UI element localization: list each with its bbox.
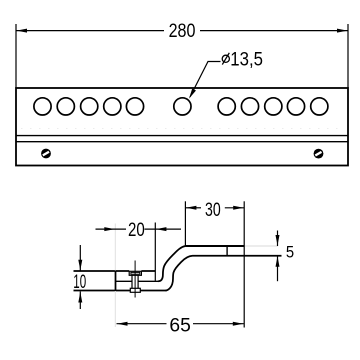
dim 20 arrow left (outside, pointing right) bbox=[104, 227, 115, 231]
leader arrowhead bbox=[189, 89, 196, 99]
dim 30 line bbox=[185, 207, 201, 209]
hole 9 bbox=[265, 98, 282, 115]
svg-text:5: 5 bbox=[286, 244, 295, 262]
screw left bbox=[41, 149, 51, 159]
screw right bbox=[314, 149, 324, 159]
hole 7 bbox=[218, 98, 235, 115]
dim 280 line right part bbox=[200, 30, 348, 32]
hole 4 bbox=[104, 98, 121, 115]
dim 10 line bottom bbox=[79, 292, 81, 310]
svg-text:10: 10 bbox=[73, 272, 86, 293]
svg-text:20: 20 bbox=[128, 218, 145, 240]
dim 65 arrow left bbox=[117, 322, 128, 326]
dim 280 arrow left bbox=[17, 29, 28, 33]
bar end cap / ext line 20 right bbox=[154, 223, 156, 281]
plate outline bbox=[16, 88, 348, 166]
svg-text:30: 30 bbox=[205, 199, 221, 221]
diameter symbol bbox=[222, 53, 229, 65]
bolt centerline bbox=[134, 261, 136, 298]
flange end tick bbox=[226, 246, 228, 256]
svg-text:65: 65 bbox=[169, 315, 190, 336]
flange bottom surface bbox=[193, 255, 282, 257]
dim 65 arrow right bbox=[233, 322, 244, 326]
dim 280 extension line right bbox=[347, 24, 349, 88]
dim 20 line bbox=[96, 228, 127, 230]
ext line 30/65 right (tall) bbox=[243, 201, 245, 327]
svg-text:280: 280 bbox=[169, 20, 196, 42]
dim 5 arrow top (pointing down) bbox=[276, 235, 280, 246]
leader line for hole diameter bbox=[190, 62, 221, 98]
hole 5 bbox=[126, 98, 143, 115]
hole 10 bbox=[287, 98, 304, 115]
flange top surface bbox=[185, 245, 244, 247]
interface line bbox=[116, 280, 133, 282]
dim 280 extension line left bbox=[15, 24, 17, 88]
dim 5 arrow bottom (pointing up) bbox=[276, 256, 280, 267]
ext line 30 left bbox=[184, 201, 186, 246]
dim 5 line bottom bbox=[277, 256, 279, 281]
hole 6 (dimensioned) bbox=[174, 98, 191, 115]
dim 280 arrow right bbox=[337, 29, 348, 33]
dim 280 line left part bbox=[16, 30, 164, 32]
flange top faint extension bbox=[244, 245, 278, 247]
bolt head bbox=[129, 271, 141, 275]
svg-text:13,5: 13,5 bbox=[230, 48, 263, 69]
dim 10 line top bbox=[79, 245, 81, 271]
hole 3 bbox=[81, 98, 98, 115]
bar top surface bbox=[74, 270, 130, 272]
hidden line (faint) bbox=[21, 128, 345, 130]
dim 20 arrow right (outside, pointing left) bbox=[156, 227, 167, 231]
dim 65 line bbox=[117, 323, 167, 325]
hole 8 bbox=[241, 98, 258, 115]
ext line 20/65 left (faint) bbox=[114, 224, 116, 271]
S-curve outer bbox=[158, 246, 186, 281]
plate groove line 2 bbox=[16, 141, 348, 143]
dim 5 line top bbox=[277, 231, 279, 247]
bar bottom surface bbox=[74, 290, 131, 292]
dim 10 arrow bottom (pointing up) bbox=[78, 292, 82, 303]
S-curve inner bbox=[166, 256, 193, 291]
hole 11 bbox=[311, 98, 328, 115]
dim 30 arrow left bbox=[186, 206, 197, 210]
hole 2 bbox=[57, 98, 74, 115]
bolt shank bbox=[131, 275, 133, 288]
bolt nut bbox=[130, 288, 140, 292]
plate groove line 1 bbox=[16, 135, 348, 137]
joint edge bbox=[115, 271, 117, 291]
dim 10 arrow top (pointing down) bbox=[78, 260, 82, 271]
dim 30 arrow right bbox=[233, 206, 244, 210]
hole 1 bbox=[34, 98, 51, 115]
